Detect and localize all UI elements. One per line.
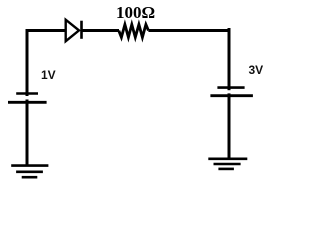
resistor R1 zigzag <box>119 25 149 38</box>
wire top-left horizontal segment <box>27 31 66 97</box>
wire battery V1 to ground <box>26 100 29 166</box>
battery V1 long plate (positive) <box>8 101 47 104</box>
wire right vertical (to battery V2) <box>228 28 231 90</box>
ground left bar 2 <box>16 171 43 174</box>
wire battery V2 to ground <box>228 93 231 158</box>
ground right bar 1 <box>208 158 247 161</box>
ground right bar 2 <box>214 163 241 166</box>
diode D1 cathode bar <box>80 21 83 39</box>
ground left bar 1 <box>11 164 48 167</box>
battery V2 short plate (negative) <box>217 86 244 89</box>
wire resistor to right corner <box>148 29 230 32</box>
wire diode to resistor <box>82 29 119 32</box>
label 100Ω for resistor R1 <box>116 3 155 23</box>
diode D1 triangle (anode) <box>66 20 79 42</box>
battery V1 short plate (negative) <box>16 92 38 95</box>
label 3V for battery V2 <box>249 63 264 77</box>
battery V2 long plate (positive) <box>210 94 253 97</box>
ground right bar 3 <box>218 168 234 171</box>
label 1V for battery V1 <box>41 68 56 82</box>
ground left bar 3 <box>22 176 38 179</box>
